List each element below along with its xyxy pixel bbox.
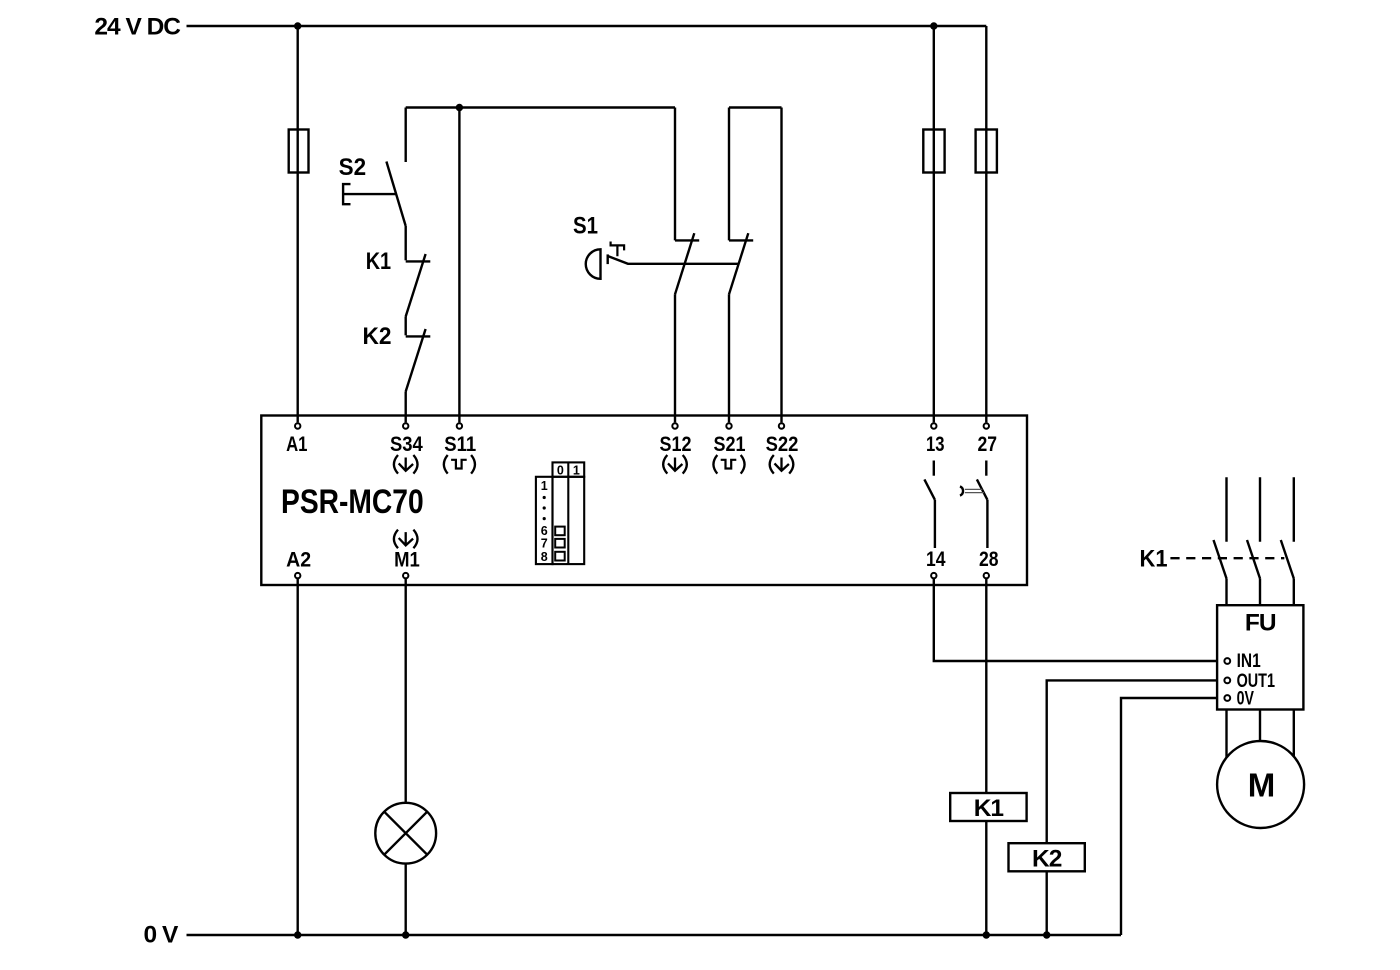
svg-text:S34: S34 <box>390 433 423 456</box>
terminal S12 <box>672 423 677 428</box>
pictogram (pulse) under S21 <box>713 455 744 474</box>
wire 27 branch <box>985 26 987 422</box>
junction on 24V rail (A1 branch) <box>294 22 301 29</box>
frequency converter FU <box>1217 605 1303 709</box>
pictogram (down-arrow) above M1 <box>394 530 418 549</box>
wire S22 branch <box>780 108 782 423</box>
svg-text:8: 8 <box>541 550 548 564</box>
svg-text:0: 0 <box>557 463 564 477</box>
svg-text:S21: S21 <box>714 433 746 456</box>
svg-text:K1: K1 <box>1140 546 1168 573</box>
wire FU 0V to 0V rail <box>1121 698 1223 935</box>
svg-text:A1: A1 <box>286 433 308 456</box>
wire FU OUT1 to K2 coil and 0V <box>1047 680 1224 935</box>
terminal S34 <box>403 423 408 428</box>
svg-text:A2: A2 <box>286 549 311 572</box>
wire S11 vertical <box>458 108 460 423</box>
terminal M1 <box>403 573 408 578</box>
relay box PSR-MC70 <box>261 416 1027 586</box>
wire A1 branch <box>297 26 299 422</box>
relay coil K2 <box>1009 843 1085 872</box>
fuse F3 <box>976 130 997 173</box>
junction M1 on 0V rail <box>402 931 409 938</box>
junction K2 coil on 0V rail <box>1043 931 1050 938</box>
svg-text:0 V: 0 V <box>144 921 179 948</box>
svg-text:PSR-MC70: PSR-MC70 <box>281 483 424 521</box>
junction K1 coil on 0V rail <box>983 931 990 938</box>
svg-text:K2: K2 <box>1032 845 1062 872</box>
junction S11 branch <box>456 104 463 111</box>
svg-text:28: 28 <box>979 548 999 571</box>
contact K1 auxiliary NO <box>366 226 431 317</box>
svg-text:S1: S1 <box>573 212 598 239</box>
indicator lamp at M1 <box>375 803 436 864</box>
svg-text:S2: S2 <box>339 154 367 181</box>
terminal S11 <box>457 423 462 428</box>
svg-text:24 V DC: 24 V DC <box>94 14 181 41</box>
svg-text:14: 14 <box>926 548 946 571</box>
terminal S21 <box>726 423 731 428</box>
svg-text:13: 13 <box>926 433 945 456</box>
svg-text:IN1: IN1 <box>1237 651 1261 672</box>
wire S11 branch horizontal <box>406 106 675 108</box>
wire 24 V DC rail <box>187 25 987 27</box>
svg-text:7: 7 <box>541 537 548 551</box>
wires FU to motor <box>1227 710 1294 761</box>
contactor K1 main contacts <box>1140 540 1294 605</box>
contact K2 auxiliary NO <box>363 317 431 423</box>
pictogram (pulse) under S11 <box>444 455 475 474</box>
svg-text:S22: S22 <box>766 433 799 456</box>
emergency stop S1 actuator <box>573 212 739 278</box>
terminal 14 <box>931 573 936 578</box>
svg-text:0V: 0V <box>1237 688 1255 709</box>
terminal 28 <box>984 573 989 578</box>
svg-text:K2: K2 <box>363 323 392 350</box>
fuse F2 <box>923 130 944 173</box>
junction A2 on 0V rail <box>294 931 301 938</box>
svg-text:27: 27 <box>977 433 997 456</box>
wire A2 to 0V <box>297 578 299 935</box>
svg-text:S12: S12 <box>660 433 692 456</box>
relay coil K1 <box>950 793 1026 822</box>
terminal A2 <box>295 573 300 578</box>
DIP switch block <box>536 462 584 564</box>
S1 NC contact 1 (to S12) <box>675 108 699 423</box>
svg-text:K1: K1 <box>366 248 391 275</box>
svg-text:K1: K1 <box>974 795 1004 822</box>
wire 0V rail <box>187 934 1122 936</box>
safety contact 27-28 <box>977 461 988 549</box>
svg-text:1: 1 <box>541 479 548 493</box>
pictogram (down-arrow) under S34 <box>394 455 418 474</box>
reset switch S2 <box>339 108 406 227</box>
fuse F1 <box>289 130 309 173</box>
junction on 24V rail (13 branch) <box>930 22 937 29</box>
terminal 27 <box>984 423 989 428</box>
svg-text:S11: S11 <box>444 433 476 456</box>
S1 NC contact 2 (to S21) <box>729 108 782 423</box>
svg-text:M: M <box>1248 767 1275 804</box>
motor M <box>1217 741 1304 828</box>
terminal S22 <box>779 423 784 428</box>
terminal A1 <box>295 423 300 428</box>
pictogram (down-arrow) under S22 <box>770 455 794 474</box>
svg-text:M1: M1 <box>394 549 420 572</box>
pictogram (down-arrow) under S12 <box>663 455 687 474</box>
svg-text:FU: FU <box>1245 609 1276 636</box>
wire 14 to FU IN1 <box>934 578 1224 661</box>
wire M1 to lamp <box>405 578 407 803</box>
safety contact 13-14 <box>924 461 935 549</box>
mechanical link symbol between contacts <box>960 486 984 495</box>
wire lamp to 0V <box>405 864 407 935</box>
3-phase supply lines <box>1227 477 1294 541</box>
wire 28 down to K1 coil and 0V <box>985 578 987 935</box>
wire 13 branch <box>933 26 935 422</box>
terminal 13 <box>931 423 936 428</box>
svg-text:1: 1 <box>573 463 580 477</box>
